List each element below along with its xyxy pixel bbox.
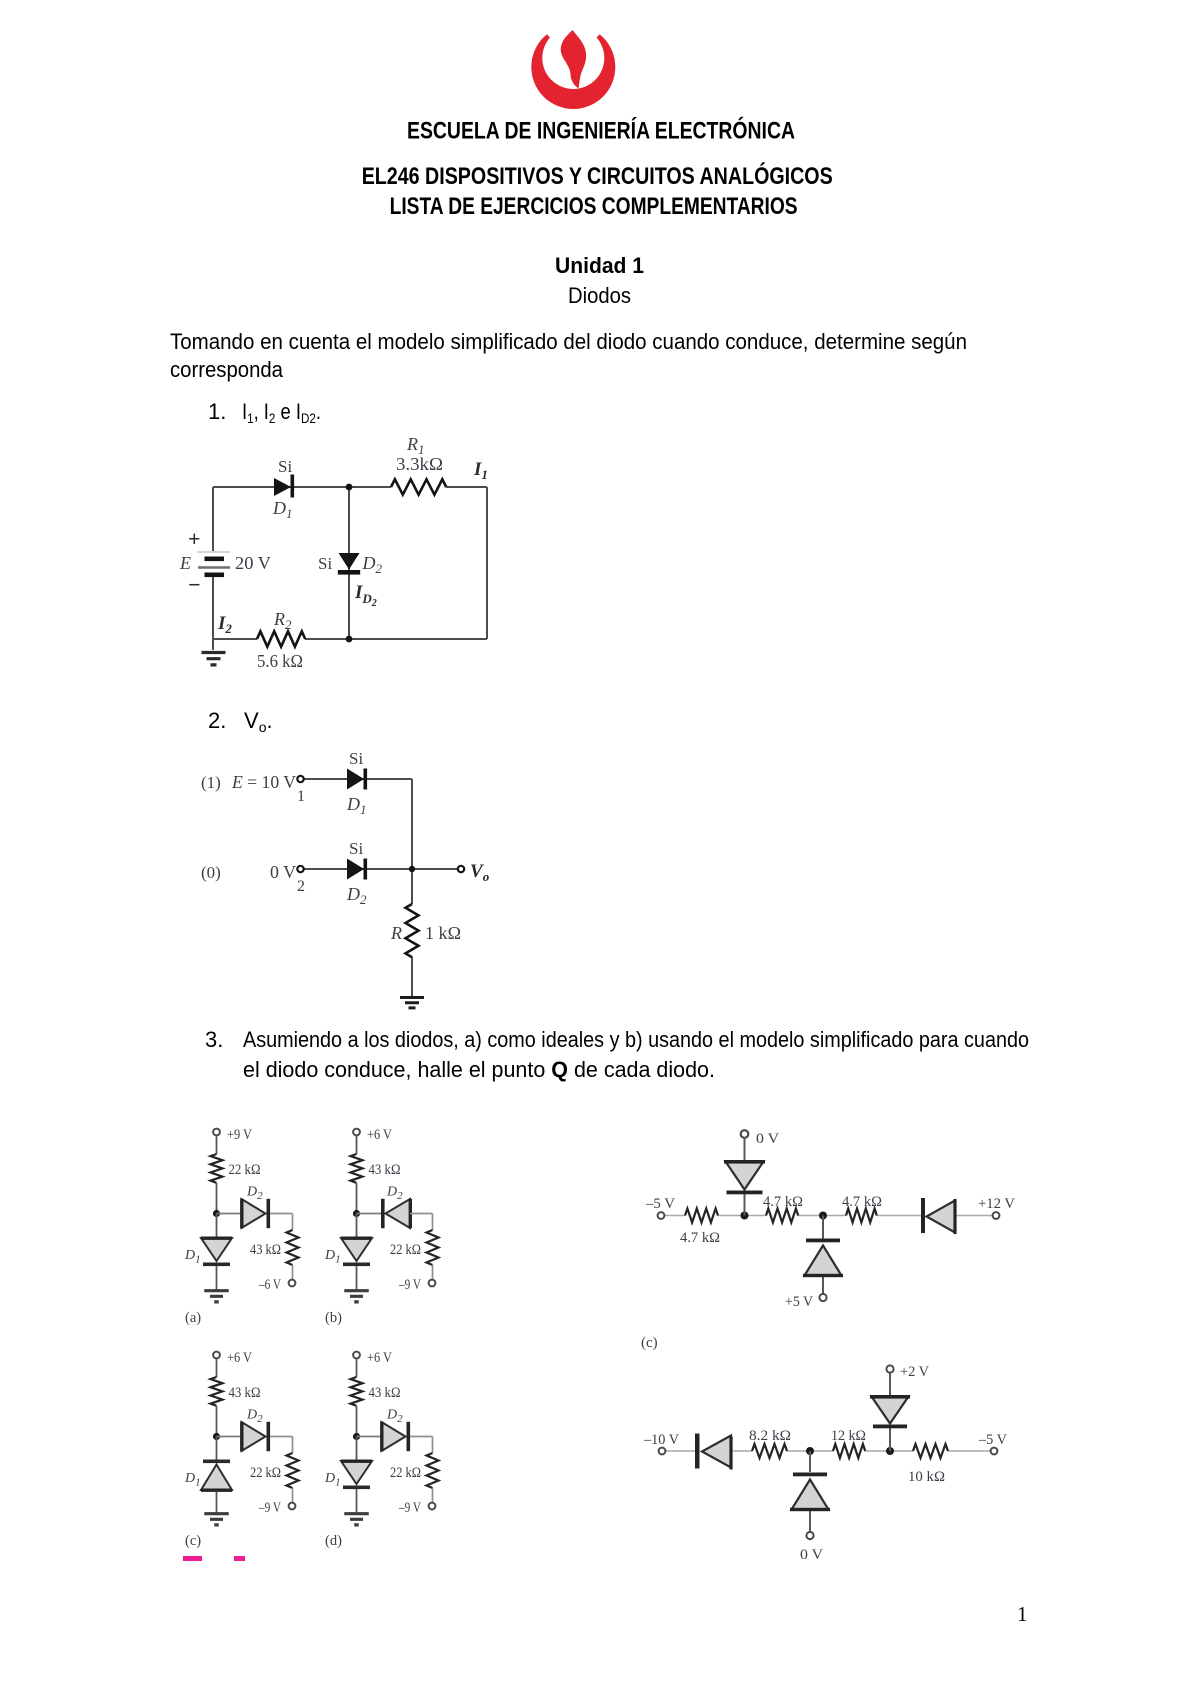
- diode bottom (3c) pointing up: [803, 1239, 843, 1278]
- node 1 (3c): [741, 1212, 749, 1220]
- diode bottom (3 bottom) pointing up: [790, 1473, 830, 1512]
- ground (circuit 1): [202, 653, 226, 665]
- svg-text:Vo: Vo: [470, 861, 490, 884]
- UPC logo crescent: [527, 11, 621, 109]
- svg-text:22 kΩ: 22 kΩ: [250, 1465, 281, 1481]
- svg-text:0 V: 0 V: [756, 1131, 779, 1147]
- diode D1: [274, 475, 294, 498]
- resistor right 22 k&#937; (c): [287, 1453, 299, 1488]
- diode D1 (circuit 2): [347, 769, 367, 790]
- svg-text:3.: 3.: [205, 1027, 223, 1052]
- ground (b): [344, 1291, 369, 1302]
- svg-text:8.2 kΩ: 8.2 kΩ: [749, 1428, 791, 1444]
- svg-text:–9 V: –9 V: [398, 1277, 421, 1293]
- terminal 0V (3c): [741, 1130, 749, 1138]
- svg-text:+: +: [188, 526, 201, 551]
- diode D2 (b): [381, 1199, 412, 1228]
- resistor right 22 k&#937; (d): [427, 1453, 439, 1488]
- svg-text:Unidad 1: Unidad 1: [555, 253, 644, 278]
- wire mid stem (a): [216, 1183, 218, 1214]
- diode top (3 bottom) pointing down: [870, 1395, 910, 1428]
- terminal +12V (3c): [993, 1212, 1000, 1219]
- svg-text:+6 V: +6 V: [227, 1350, 252, 1366]
- svg-text:(c): (c): [641, 1335, 658, 1351]
- svg-text:E = 10 V: E = 10 V: [231, 772, 296, 792]
- battery E: [197, 552, 230, 577]
- wire node to D1 (b): [356, 1214, 358, 1239]
- svg-text:corresponda: corresponda: [170, 357, 284, 382]
- wire node to D1 (d): [356, 1437, 358, 1462]
- svg-text:D1: D1: [272, 498, 293, 521]
- diode left (3 bottom) pointing left: [695, 1434, 733, 1470]
- terminal +V (b): [353, 1129, 360, 1136]
- resistor R1: [391, 479, 446, 494]
- pink cropped caption fragment 2: [234, 1556, 245, 1561]
- svg-text:+6 V: +6 V: [367, 1127, 392, 1143]
- svg-text:I1, I2 e ID2.: I1, I2 e ID2.: [242, 399, 321, 426]
- svg-text:3.3kΩ: 3.3kΩ: [396, 454, 443, 474]
- terminal -5V (3 bottom): [991, 1448, 998, 1455]
- wire right rail: [486, 487, 488, 639]
- wire to bottom terminal (c): [292, 1488, 294, 1503]
- svg-text:Asumiendo a los diodos, a) com: Asumiendo a los diodos, a) como ideales …: [243, 1027, 1029, 1052]
- node junction (d): [353, 1433, 360, 1440]
- svg-text:R: R: [390, 923, 402, 943]
- svg-text:+2 V: +2 V: [900, 1364, 929, 1380]
- wire D2 branch: [348, 487, 350, 639]
- resistor R2: [257, 631, 305, 646]
- resistor right 22 k&#937; (b): [427, 1230, 439, 1265]
- wire node to D2 (b): [357, 1213, 382, 1215]
- svg-text:D2: D2: [386, 1408, 403, 1426]
- ground (c): [204, 1514, 229, 1525]
- ground (d): [344, 1514, 369, 1525]
- svg-text:E: E: [179, 553, 191, 573]
- terminal +V (c): [213, 1352, 220, 1359]
- terminal 2: [297, 866, 303, 872]
- svg-text:22 kΩ: 22 kΩ: [390, 1242, 421, 1258]
- terminal 1: [297, 776, 303, 782]
- svg-text:+6 V: +6 V: [367, 1350, 392, 1366]
- diode top (3c) pointing down: [724, 1160, 765, 1194]
- svg-text:Si: Si: [278, 457, 292, 476]
- svg-text:22 kΩ: 22 kΩ: [390, 1465, 421, 1481]
- wire mid stem (b): [356, 1183, 358, 1214]
- resistor top 43 k&#937; (b): [351, 1154, 363, 1183]
- svg-text:Si: Si: [349, 839, 363, 858]
- wire node1 to lower diode: [809, 1451, 811, 1532]
- wire +2V stem: [889, 1373, 891, 1451]
- svg-text:4.7 kΩ: 4.7 kΩ: [680, 1230, 720, 1246]
- svg-text:D2: D2: [346, 884, 367, 907]
- svg-text:+12 V: +12 V: [978, 1196, 1015, 1212]
- svg-text:43 kΩ: 43 kΩ: [250, 1242, 281, 1258]
- svg-text:D2: D2: [246, 1408, 263, 1426]
- terminal -V (c): [289, 1503, 296, 1510]
- wire D1 to ground (a): [216, 1266, 218, 1290]
- node 2 (3c): [819, 1212, 827, 1220]
- svg-text:el diodo conduce, halle el pun: el diodo conduce, halle el punto Q de ca…: [243, 1057, 715, 1082]
- svg-text:+5 V: +5 V: [785, 1294, 813, 1310]
- svg-text:D1: D1: [346, 794, 367, 817]
- svg-text:D1: D1: [324, 1248, 341, 1266]
- svg-text:–6 V: –6 V: [258, 1277, 281, 1293]
- svg-text:20 V: 20 V: [235, 553, 271, 573]
- diode D1 (d): [341, 1460, 372, 1490]
- wire D1 to ground (d): [356, 1489, 358, 1513]
- wire resistor stem: [411, 869, 413, 996]
- svg-text:43 kΩ: 43 kΩ: [229, 1385, 261, 1401]
- wire input 2 through D2 to Vo: [304, 868, 458, 870]
- wire bottom: [213, 638, 487, 640]
- node 1 (3 bottom): [806, 1447, 814, 1455]
- svg-text:Si: Si: [318, 554, 332, 573]
- pink cropped caption fragment 1: [183, 1556, 202, 1561]
- node junction (a): [213, 1210, 220, 1217]
- diode right (3c) pointing left: [921, 1198, 957, 1234]
- terminal -5V: [658, 1212, 665, 1219]
- node junction bottom: [346, 636, 353, 643]
- wire mid stem (c): [216, 1406, 218, 1437]
- wire vertical from D1 branch: [411, 779, 413, 869]
- resistor top 43 k&#937; (d): [351, 1377, 363, 1406]
- ground (a): [204, 1291, 229, 1302]
- node junction (c): [213, 1433, 220, 1440]
- diode D2 (c): [240, 1422, 270, 1451]
- wire top from battery+ through D1 to R1: [213, 486, 487, 488]
- svg-text:(c): (c): [185, 1533, 201, 1549]
- diode D1 (c): [201, 1460, 232, 1492]
- svg-text:(b): (b): [325, 1310, 342, 1326]
- svg-text:ESCUELA DE INGENIERÍA ELECTRÓN: ESCUELA DE INGENIERÍA ELECTRÓNICA: [407, 117, 795, 145]
- wire left rail above battery: [212, 487, 214, 551]
- svg-text:I2: I2: [217, 613, 232, 636]
- svg-text:Tomando en cuenta el modelo si: Tomando en cuenta el modelo simplificado…: [170, 329, 967, 354]
- svg-text:ID2: ID2: [354, 582, 377, 609]
- svg-text:−: −: [188, 572, 201, 597]
- svg-text:–5 V: –5 V: [645, 1196, 675, 1212]
- wire to bottom terminal (b): [432, 1265, 434, 1280]
- terminal -10V: [659, 1448, 666, 1455]
- svg-text:I1: I1: [473, 459, 488, 482]
- svg-text:10 kΩ: 10 kΩ: [908, 1469, 945, 1485]
- UPC logo flame: [561, 30, 586, 89]
- node junction (c2): [409, 866, 415, 872]
- resistor top 43 k&#937; (c): [211, 1377, 223, 1406]
- svg-text:4.7 kΩ: 4.7 kΩ: [763, 1194, 803, 1210]
- terminal +V (d): [353, 1352, 360, 1359]
- svg-text:+9 V: +9 V: [227, 1127, 252, 1143]
- wire node to D1 (c): [216, 1437, 218, 1460]
- wire D1 to ground (c): [216, 1492, 218, 1514]
- wire to bottom terminal (d): [432, 1488, 434, 1503]
- terminal +5V (3c): [819, 1294, 826, 1301]
- wire node to D2 (d): [357, 1436, 382, 1438]
- wire top stem (b): [356, 1135, 358, 1154]
- svg-text:D1: D1: [184, 1471, 201, 1489]
- svg-text:R2: R2: [273, 609, 292, 632]
- svg-text:0 V: 0 V: [270, 862, 296, 882]
- node junction (b): [353, 1210, 360, 1217]
- terminal -V (a): [289, 1280, 296, 1287]
- terminal Vo: [458, 866, 464, 872]
- wire rail (3 bottom): [666, 1450, 991, 1452]
- diode D1 (b): [341, 1237, 372, 1267]
- svg-text:1: 1: [297, 788, 305, 805]
- wire to bottom terminal (a): [292, 1265, 294, 1280]
- svg-text:–5 V: –5 V: [978, 1432, 1007, 1448]
- svg-text:EL246 DISPOSITIVOS Y CIRCUITOS: EL246 DISPOSITIVOS Y CIRCUITOS ANALÓGICO…: [362, 162, 833, 190]
- terminal +2V: [886, 1365, 893, 1372]
- svg-text:D2: D2: [362, 553, 383, 576]
- svg-text:1: 1: [1017, 1602, 1028, 1626]
- wire mid stem (d): [356, 1406, 358, 1437]
- diode D1 (a): [201, 1237, 232, 1267]
- diode D2 (circuit 2): [347, 859, 367, 880]
- resistor 4.7k left: [685, 1209, 718, 1223]
- svg-text:43 kΩ: 43 kΩ: [369, 1162, 401, 1178]
- diode D2: [338, 553, 360, 575]
- resistor R (circuit 2): [406, 904, 419, 957]
- svg-text:2.: 2.: [208, 708, 226, 733]
- svg-text:4.7 kΩ: 4.7 kΩ: [842, 1194, 882, 1210]
- terminal 0V (3 bottom): [806, 1532, 813, 1539]
- svg-text:1 kΩ: 1 kΩ: [425, 923, 461, 943]
- resistor 8.2k: [752, 1444, 787, 1458]
- resistor 10k: [913, 1444, 948, 1458]
- diode D2 (d): [380, 1422, 410, 1451]
- wire D2 to corner (d): [410, 1437, 432, 1454]
- svg-text:22 kΩ: 22 kΩ: [229, 1162, 261, 1178]
- svg-text:LISTA DE EJERCICIOS COMPLEMENT: LISTA DE EJERCICIOS COMPLEMENTARIOS: [390, 193, 798, 220]
- wire D2 to corner (b): [410, 1214, 433, 1231]
- svg-text:(d): (d): [325, 1533, 342, 1549]
- wire input 1 to D1: [304, 778, 412, 780]
- ground stem: [212, 639, 214, 650]
- svg-text:1.: 1.: [208, 399, 226, 424]
- wire D2 to corner (a): [270, 1214, 292, 1231]
- resistor top 22 k&#937; (a): [211, 1154, 223, 1183]
- wire 0V stem: [744, 1138, 746, 1216]
- node 2 (3 bottom): [886, 1447, 894, 1455]
- terminal -V (b): [429, 1280, 436, 1287]
- svg-text:(a): (a): [185, 1310, 201, 1326]
- wire top stem (d): [356, 1358, 358, 1377]
- wire node2 to lower diode: [822, 1216, 824, 1295]
- wire rail (3c right): [665, 1215, 993, 1217]
- ground (circuit 2): [400, 998, 424, 1008]
- diode D2 (a): [240, 1199, 270, 1228]
- resistor 4.7k right: [846, 1209, 877, 1223]
- svg-text:43 kΩ: 43 kΩ: [369, 1385, 401, 1401]
- resistor 12k: [833, 1444, 865, 1458]
- svg-text:(0): (0): [201, 863, 221, 882]
- wire left rail below battery: [212, 577, 214, 639]
- resistor 4.7k mid: [766, 1209, 798, 1223]
- svg-text:Si: Si: [349, 749, 363, 768]
- svg-text:(1): (1): [201, 773, 221, 792]
- svg-text:Diodos: Diodos: [568, 283, 631, 308]
- wire D1 to ground (b): [356, 1266, 358, 1290]
- svg-text:5.6 kΩ: 5.6 kΩ: [257, 651, 303, 671]
- node junction top: [346, 484, 353, 491]
- svg-text:–10 V: –10 V: [643, 1432, 679, 1448]
- svg-text:–9 V: –9 V: [398, 1500, 421, 1516]
- wire node to D1 (a): [216, 1214, 218, 1239]
- terminal -V (d): [429, 1503, 436, 1510]
- svg-text:D1: D1: [324, 1471, 341, 1489]
- svg-text:2: 2: [297, 878, 305, 895]
- wire node to D2 (a): [217, 1213, 242, 1215]
- svg-text:–9 V: –9 V: [258, 1500, 281, 1516]
- svg-text:0 V: 0 V: [800, 1547, 823, 1563]
- resistor right 43 k&#937; (a): [287, 1230, 299, 1265]
- svg-text:D2: D2: [246, 1185, 263, 1203]
- wire top stem (c): [216, 1358, 218, 1377]
- wire D2 to corner (c): [270, 1437, 292, 1454]
- svg-text:12 kΩ: 12 kΩ: [831, 1428, 866, 1444]
- wire top stem (a): [216, 1135, 218, 1154]
- svg-text:Vo.: Vo.: [244, 708, 273, 735]
- svg-text:D1: D1: [184, 1248, 201, 1266]
- terminal +V (a): [213, 1129, 220, 1136]
- wire node to D2 (c): [217, 1436, 242, 1438]
- svg-text:D2: D2: [386, 1185, 403, 1203]
